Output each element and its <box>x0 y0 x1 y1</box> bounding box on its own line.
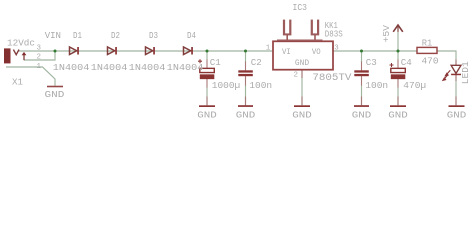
svg-text:1N4004: 1N4004 <box>129 62 166 73</box>
svg-text:VO: VO <box>312 48 321 57</box>
svg-text:C1: C1 <box>210 57 221 68</box>
svg-text:D83S: D83S <box>325 29 343 40</box>
svg-text:D4: D4 <box>187 30 196 41</box>
svg-text:D1: D1 <box>73 30 82 41</box>
svg-text:1N4004: 1N4004 <box>53 62 90 73</box>
svg-text:1000µ: 1000µ <box>212 80 241 91</box>
svg-text:C2: C2 <box>251 57 262 68</box>
svg-text:C3: C3 <box>366 57 377 68</box>
svg-text:12Vdc: 12Vdc <box>7 37 35 48</box>
svg-text:D3: D3 <box>149 30 158 41</box>
svg-text:GND: GND <box>292 109 312 120</box>
svg-text:X1: X1 <box>12 77 23 88</box>
svg-text:100n: 100n <box>365 80 388 91</box>
svg-text:GND: GND <box>197 109 217 120</box>
svg-text:2: 2 <box>37 54 42 62</box>
svg-text:470µ: 470µ <box>403 80 426 91</box>
svg-text:GND: GND <box>45 89 65 100</box>
svg-text:LED1: LED1 <box>460 61 471 84</box>
svg-text:7805TV: 7805TV <box>312 73 352 84</box>
svg-text:C4: C4 <box>401 57 412 68</box>
svg-text:R1: R1 <box>422 38 433 49</box>
svg-text:1: 1 <box>266 45 271 53</box>
svg-text:100n: 100n <box>249 80 272 91</box>
svg-text:+5V: +5V <box>381 25 392 43</box>
svg-text:1N4004: 1N4004 <box>91 62 128 73</box>
svg-text:470: 470 <box>422 55 439 66</box>
svg-text:GND: GND <box>447 109 467 120</box>
svg-text:3: 3 <box>334 45 339 53</box>
svg-text:VI: VI <box>282 48 291 57</box>
svg-text:GND: GND <box>352 109 372 120</box>
svg-text:GND: GND <box>388 109 408 120</box>
svg-text:2: 2 <box>294 71 299 79</box>
svg-text:GND: GND <box>236 109 256 120</box>
svg-text:VIN: VIN <box>45 30 61 41</box>
svg-text:IC3: IC3 <box>293 2 308 13</box>
svg-text:1N4004: 1N4004 <box>167 62 204 73</box>
svg-text:3: 3 <box>37 45 42 53</box>
svg-text:1: 1 <box>37 63 42 71</box>
svg-text:D2: D2 <box>111 30 120 41</box>
svg-text:GND: GND <box>295 59 309 68</box>
